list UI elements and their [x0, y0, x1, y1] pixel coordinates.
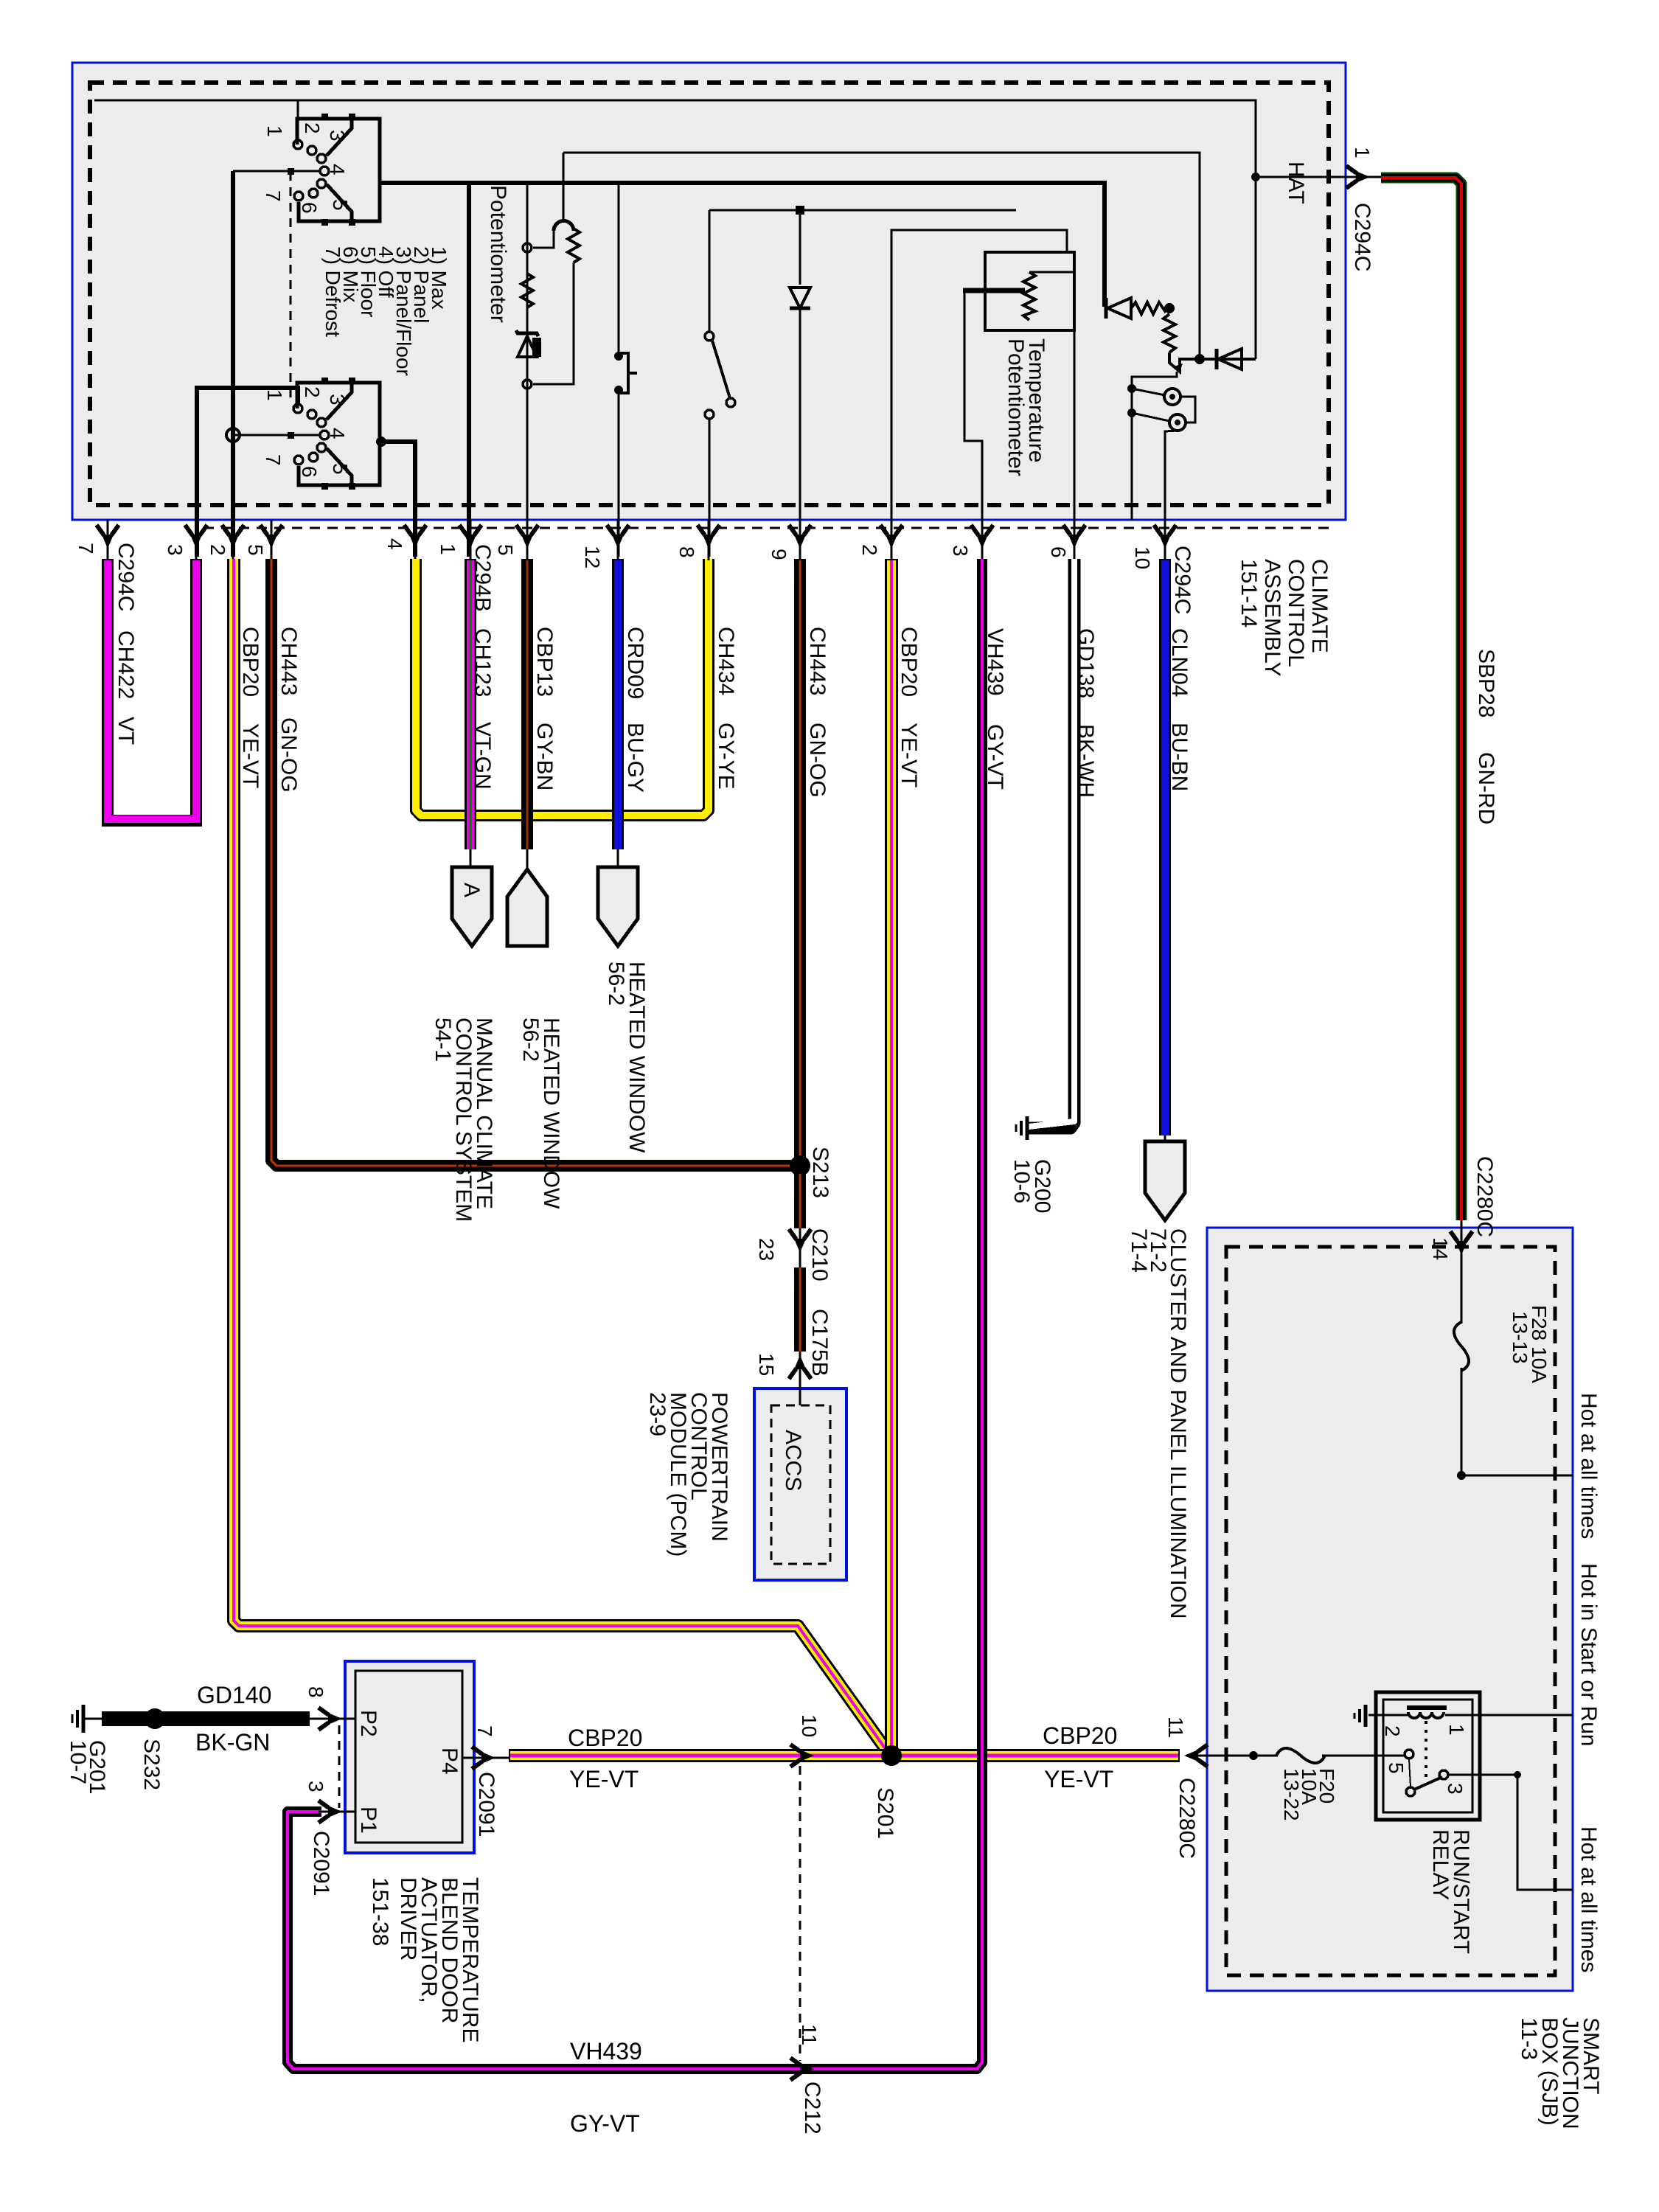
SW1 contact 6: [294, 192, 303, 201]
svg-text:YE-VT: YE-VT: [238, 723, 262, 788]
wire CH422 U (violet core): [108, 560, 196, 819]
relay pin 5 contact: [1405, 1750, 1413, 1759]
SW2 frame junction squares: [321, 378, 328, 384]
svg-text:HAT: HAT: [1284, 161, 1308, 204]
arrow 11 C212: [790, 2058, 814, 2080]
zener diode in blower chain: [518, 336, 537, 357]
lamp 2: [1169, 414, 1186, 431]
svg-text:1: 1: [1445, 1724, 1468, 1736]
svg-text:YE-VT: YE-VT: [569, 1766, 639, 1792]
svg-text:C294C: C294C: [114, 543, 138, 611]
ACCS dashed box: [771, 1405, 830, 1564]
lead to cluster connector: [1164, 1135, 1166, 1143]
pin 2b lead: [891, 520, 893, 560]
svg-text:CONTROL: CONTROL: [1284, 559, 1308, 667]
svg-text:5: 5: [1385, 1762, 1408, 1774]
SW2 contact 5a: [317, 443, 326, 452]
svg-text:S201: S201: [873, 1787, 897, 1839]
relay blade: [1414, 1777, 1442, 1790]
relay movable contact: [1406, 1787, 1415, 1796]
mode switch SW2 frame: [297, 383, 380, 485]
svg-text:YE-VT: YE-VT: [1044, 1766, 1113, 1792]
wire: interior top line to HAT node: [94, 100, 1256, 359]
node: junction on y285 line: [796, 206, 804, 215]
relay pin 1 wire to hot in start or run: [1445, 1714, 1573, 1717]
wire CH443 below S213 (outline): [794, 1174, 806, 1228]
node S201: [881, 1745, 902, 1766]
lamp loop rectangle: [1180, 397, 1195, 422]
SW2 contact 5b: [309, 453, 318, 462]
lead to heated window connector 1: [526, 849, 529, 872]
svg-text:23: 23: [755, 1238, 778, 1261]
pushbutton upper contact: [614, 352, 623, 361]
wire CBP20 left (outline): [234, 559, 889, 1754]
pin 5 lead: [271, 520, 273, 560]
svg-text:1: 1: [437, 543, 459, 555]
svg-text:CBP20: CBP20: [1043, 1722, 1117, 1749]
wire CH434 U (outline): [416, 559, 709, 815]
svg-text:11: 11: [1164, 1717, 1187, 1738]
svg-text:Hot at all times: Hot at all times: [1576, 1393, 1601, 1539]
wire SBP28 (green edge): [1381, 178, 1461, 1220]
wire SBP28 (outline): [1381, 178, 1461, 1220]
SPST lower contact: [705, 410, 714, 419]
svg-text:2: 2: [858, 544, 881, 556]
transistor symbol: [1169, 352, 1256, 372]
svg-text:2: 2: [301, 122, 324, 134]
svg-text:5: 5: [244, 544, 267, 556]
wire: SPST switch line upper: [709, 210, 711, 331]
svg-text:C2091: C2091: [474, 1772, 498, 1837]
wire: pushbutton line upper: [618, 185, 620, 353]
svg-text:5: 5: [329, 463, 352, 475]
SPST blade end contact: [726, 398, 735, 407]
svg-text:5: 5: [329, 199, 352, 211]
wire VH439 crossing overlay: [977, 1733, 987, 1781]
diode cathode bar: [790, 307, 810, 310]
lamp 2 link: [1132, 413, 1169, 421]
pin 8 arrow: [698, 525, 720, 549]
svg-text:P2: P2: [356, 1710, 380, 1737]
wire CLN04 (outline): [1159, 559, 1171, 1135]
wire hot at all times feed: [1461, 1475, 1573, 1477]
svg-text:7: 7: [473, 1725, 496, 1737]
svg-text:4: 4: [383, 538, 406, 550]
wire relay pin3 to hot at all times: [1449, 1775, 1573, 1890]
wire: blower resistor chain vertical: [526, 185, 529, 557]
ground G201 bar3: [72, 1714, 74, 1723]
dashed link P2-P1: [338, 1725, 341, 1808]
pushbutton stem: [628, 372, 637, 375]
svg-text:BU-GY: BU-GY: [623, 723, 647, 793]
pin 8 lead: [708, 520, 710, 560]
wire CBP20 S201 to SJB (violet stripe): [891, 1754, 1178, 1758]
svg-text:1: 1: [263, 389, 286, 401]
svg-text:9: 9: [768, 549, 790, 560]
node: HAT junction dot: [1251, 173, 1260, 181]
svg-text:CLIMATE: CLIMATE: [1307, 559, 1332, 653]
SW2 contact 3: [307, 410, 316, 419]
arrow 14 C2280C: [1450, 1231, 1472, 1255]
pushbutton actuator bar: [619, 353, 628, 393]
blower motor hook arc: [554, 221, 574, 232]
run/start relay outer box: [1376, 1692, 1480, 1820]
wire CBP20 P4 to S201 (yellow): [510, 1751, 891, 1760]
lamp 1 link: [1132, 389, 1165, 395]
svg-text:C294C: C294C: [1350, 203, 1374, 271]
wire: bus drop to pin 1: [467, 183, 471, 557]
arrow 8 P2: [319, 1708, 342, 1730]
lead at C210: [799, 1228, 801, 1267]
arrow 3 P1: [319, 1801, 342, 1823]
svg-text:8: 8: [675, 546, 698, 558]
wire: bypass branch lower: [533, 262, 574, 384]
svg-text:CH443: CH443: [805, 627, 829, 695]
diode 1 triangle: [1107, 298, 1131, 319]
wire CRD09 (blue): [614, 560, 622, 849]
node S232: [145, 1708, 165, 1729]
pin 12 lead: [617, 520, 619, 560]
wire CBP20 left (violet stripe): [234, 559, 889, 1754]
lead to heated window connector 2: [617, 849, 619, 869]
SW2 contact 6: [294, 456, 303, 465]
dashed link 10-11: [799, 1766, 801, 2061]
lead to connector A: [470, 849, 472, 869]
wire CH443 right (outline): [794, 559, 806, 1161]
svg-text:Potentiometer: Potentiometer: [1004, 338, 1028, 476]
wire: hook to top line riser: [563, 153, 565, 221]
svg-text:CRD09: CRD09: [623, 627, 647, 699]
svg-text:7) Defrost: 7) Defrost: [321, 246, 344, 337]
arrow 11 C2280C: [1184, 1745, 1208, 1767]
pin 5 arrow: [260, 525, 282, 549]
lamp 1: [1164, 389, 1180, 405]
svg-text:CH434: CH434: [714, 627, 738, 695]
svg-text:3: 3: [164, 544, 187, 556]
pin 1 arrow: [459, 525, 481, 549]
SW1-SW2 mechanical dashed link: [290, 172, 292, 402]
SW1 contact 5a: [317, 179, 326, 188]
wire CBP20 riser (yellow): [887, 560, 896, 1752]
svg-text:4: 4: [326, 428, 349, 439]
resistor after diode 1: [1131, 302, 1168, 314]
wire: blower bypass branch upper: [533, 231, 554, 248]
connector A pentagon: [452, 867, 492, 946]
svg-text:151-38: 151-38: [368, 1877, 392, 1946]
smart junction box (SJB): [1207, 1228, 1573, 1991]
svg-text:C210: C210: [807, 1228, 832, 1281]
wire GD140 (black): [102, 1711, 310, 1726]
svg-text:S232: S232: [139, 1739, 164, 1790]
svg-text:P1: P1: [356, 1806, 380, 1834]
svg-text:GN-OG: GN-OG: [805, 723, 829, 798]
svg-text:Potentiometer: Potentiometer: [486, 185, 510, 323]
diode 2 cathode bar: [1215, 349, 1219, 369]
svg-text:13-13: 13-13: [1509, 1311, 1531, 1364]
SW1 contact 3: [307, 146, 316, 155]
svg-text:GN-RD: GN-RD: [1474, 752, 1498, 824]
svg-text:71-4: 71-4: [1127, 1228, 1151, 1273]
svg-text:CH443: CH443: [276, 627, 301, 695]
wire CRD09 (outline): [612, 559, 624, 849]
wire CBP20 P4 to S201 (violet stripe): [510, 1754, 891, 1758]
svg-text:CLUSTER AND PANEL ILLUMINATION: CLUSTER AND PANEL ILLUMINATION: [1166, 1228, 1190, 1619]
wire: pin3 link to SW2: [197, 388, 298, 557]
svg-text:GY-YE: GY-YE: [714, 723, 738, 790]
svg-text:151-14: 151-14: [1237, 559, 1261, 627]
arrow 7 P4: [472, 1747, 495, 1769]
HAT pin arrow: [1346, 166, 1370, 188]
SW2 input line: [233, 434, 319, 437]
wire: main thick supply bus inside climate box: [380, 183, 1105, 307]
blower chain contact lower: [523, 380, 532, 389]
wire VH439 (violet core): [288, 559, 982, 2069]
pin 7 lead: [107, 520, 109, 560]
node S201 (top copy): [881, 1745, 902, 1766]
svg-text:C2091: C2091: [309, 1831, 333, 1896]
relay pin 2 wire to ground: [1368, 1714, 1408, 1717]
pin 6 arrow: [1063, 525, 1085, 549]
resistor vertical to transistor: [1164, 314, 1175, 352]
SW2 input junction circle: [226, 428, 240, 442]
wire VH439 (outline): [288, 559, 982, 2069]
svg-text:7: 7: [262, 190, 285, 202]
relay coil bar: [1407, 1705, 1447, 1710]
temp pot resistor top link: [1029, 271, 1073, 274]
wire CBP20 left (yellow): [234, 559, 889, 1754]
svg-text:10-7: 10-7: [66, 1740, 90, 1784]
SW2 wiper contact: [317, 418, 326, 427]
relay coil bumps: [1408, 1712, 1444, 1718]
node F20 feed dot: [1249, 1751, 1258, 1760]
SJB inner dashed border: [1226, 1247, 1555, 1975]
svg-text:6: 6: [298, 202, 321, 214]
svg-text:1: 1: [1351, 147, 1374, 159]
lamp 2 center: [1175, 420, 1180, 425]
svg-text:7: 7: [74, 543, 97, 554]
wire CH443 right (orange stripe): [799, 560, 801, 1161]
wire F20 to relay pin 5: [1322, 1755, 1404, 1757]
SW2 blade lower: [327, 448, 352, 485]
wire: CBP20 interior line to temp pot: [891, 230, 1067, 557]
svg-text:CH422: CH422: [114, 630, 138, 699]
wire: SW2 wiper riser to pin2 (thick): [231, 171, 235, 557]
wire: HAT branch line: [1256, 176, 1330, 178]
wire CH443 below S213 (orange stripe): [799, 1174, 801, 1228]
heated window connector 1 pentagon: [507, 869, 547, 946]
svg-text:CBP13: CBP13: [532, 627, 557, 697]
svg-text:56-2: 56-2: [604, 961, 628, 1006]
wire CH123 (green stripe): [470, 560, 472, 849]
svg-text:8: 8: [305, 1686, 327, 1698]
svg-text:CBP20: CBP20: [238, 627, 262, 697]
svg-text:54-1: 54-1: [431, 1018, 455, 1062]
wire CH422 U (outline): [108, 559, 196, 821]
SW1 contact 4: [320, 167, 329, 175]
svg-text:10: 10: [798, 1714, 821, 1737]
svg-text:GY-VT: GY-VT: [570, 2110, 640, 2137]
svg-text:YE-VT: YE-VT: [897, 723, 921, 787]
pin 3 arrow: [185, 525, 207, 549]
pin 5b lead: [526, 520, 529, 560]
svg-text:ACCS: ACCS: [781, 1430, 805, 1491]
wire CBP20 P4 to S201 (outline): [509, 1749, 891, 1762]
node: lamp stack dot 1: [1127, 384, 1136, 393]
temperature potentiometer box: [985, 252, 1074, 330]
svg-text:Hot at all times: Hot at all times: [1576, 1826, 1601, 1972]
ground G200 bar2: [1020, 1121, 1023, 1135]
pin 10 lead: [1164, 520, 1166, 560]
node: resistor junction dot: [1164, 303, 1175, 313]
svg-text:GY-BN: GY-BN: [532, 723, 557, 790]
pin 12 arrow: [607, 525, 629, 549]
wire CH443 left (orange stripe): [271, 559, 795, 1166]
svg-text:12: 12: [581, 546, 604, 568]
temp pot wiper (thick): [963, 288, 1025, 293]
coil in bypass branch: [568, 229, 580, 262]
actuator inner border: [355, 1671, 462, 1843]
wire: pushbutton line lower to pin 12: [618, 393, 620, 557]
SW1 input line from CBP20 riser: [233, 170, 319, 173]
arrow 15 C175B: [789, 1355, 811, 1379]
zener cathode bar: [516, 330, 538, 336]
svg-text:C175B: C175B: [807, 1309, 832, 1377]
wire GD138 (outline): [1029, 559, 1074, 1128]
lead from P4: [462, 1757, 510, 1759]
svg-text:6: 6: [1047, 546, 1070, 558]
svg-text:2: 2: [301, 386, 324, 398]
heated window connector 2 pentagon: [598, 867, 638, 946]
svg-text:3: 3: [305, 1781, 327, 1792]
temperature blend door actuator box: [345, 1661, 474, 1853]
mode switch SW1 frame: [297, 119, 380, 221]
wire: CLN04 interior riser: [1165, 431, 1178, 557]
SW2 blade upper: [327, 383, 352, 420]
pin 3 lead: [195, 520, 198, 560]
svg-text:11: 11: [798, 2024, 821, 2045]
SW2 contact 2: [293, 404, 302, 413]
arrow 23 C210: [789, 1229, 811, 1253]
svg-text:GD140: GD140: [197, 1682, 271, 1708]
SW1 frame junction squares: [321, 114, 328, 120]
pin 3b lead: [981, 520, 984, 560]
svg-text:13-22: 13-22: [1280, 1768, 1303, 1821]
wire: SW2 output to pin 4: [380, 442, 415, 557]
pin 6 lead: [1074, 520, 1076, 560]
wire: temp pot bottom to GD138 pin 6: [1074, 329, 1076, 557]
svg-text:SBP28: SBP28: [1474, 649, 1498, 717]
node S201 (top copy): [881, 1745, 902, 1766]
ground G201 lead: [83, 1718, 103, 1720]
svg-text:S213: S213: [808, 1147, 832, 1198]
ground G201 bar2: [76, 1710, 79, 1728]
svg-text:11-3: 11-3: [1517, 2017, 1541, 2060]
node: lamp stack dot 2: [1127, 408, 1136, 417]
node: transistor output dot: [1194, 354, 1205, 364]
wire CH443 to PCM (orange stripe): [799, 1267, 801, 1352]
svg-text:23-9: 23-9: [645, 1392, 669, 1436]
wire CH123 (outline): [465, 559, 476, 849]
lead at C175B: [799, 1352, 801, 1405]
svg-text:3: 3: [1444, 1783, 1467, 1795]
climate assembly inner dashed border: [90, 83, 1329, 505]
run/start relay inner box: [1383, 1700, 1472, 1812]
svg-text:6: 6: [298, 466, 321, 478]
SW2 contact 4: [320, 431, 329, 439]
svg-text:CBP20: CBP20: [897, 627, 921, 697]
wire SBP28 (red core): [1381, 178, 1461, 1220]
svg-text:7: 7: [262, 454, 285, 466]
SPST blade: [712, 341, 730, 398]
svg-text:VH439: VH439: [570, 2038, 642, 2065]
svg-text:56-2: 56-2: [518, 1018, 543, 1062]
wire CH434 U (yellow): [416, 559, 709, 815]
svg-text:C2280C: C2280C: [1472, 1156, 1497, 1237]
node hot feed junction: [1457, 1471, 1466, 1480]
pin 4 lead: [414, 520, 417, 560]
svg-text:4: 4: [326, 164, 349, 175]
wire CBP20 S201 to SJB (outline): [891, 1749, 1180, 1762]
pin 9 lead: [799, 520, 801, 560]
diode 2 triangle: [1218, 349, 1242, 369]
svg-text:2: 2: [1381, 1725, 1404, 1737]
wire: interior line y207: [563, 153, 1200, 359]
pin 2b arrow: [880, 525, 902, 549]
wire CLN04 (blue): [1161, 560, 1169, 1135]
SW1 blade upper: [327, 119, 352, 156]
pin 2 lead: [232, 520, 234, 560]
fuse F28: [1454, 1322, 1469, 1371]
wire CBP20 S201 to SJB (yellow): [891, 1751, 1178, 1760]
svg-text:2: 2: [206, 544, 229, 556]
wire CH123 (violet): [467, 560, 474, 849]
pin 1 lead: [470, 520, 472, 560]
pushbutton lower contact: [614, 386, 623, 394]
relay ground bar2: [1358, 1709, 1361, 1722]
node S213: [790, 1155, 810, 1176]
arrow 10: [790, 1745, 814, 1767]
transistor emitter tick: [1174, 364, 1183, 372]
pin 7 arrow: [97, 525, 119, 549]
HAT pin lead: [1330, 176, 1381, 178]
node pin3 wire corner dot: [1514, 1771, 1521, 1778]
svg-text:3: 3: [949, 545, 972, 557]
svg-text:GN-OG: GN-OG: [276, 717, 301, 793]
diode on pin 9 line: [790, 288, 810, 308]
svg-text:5: 5: [494, 544, 517, 556]
lead into actuator P1: [319, 1811, 355, 1813]
svg-text:CBP20: CBP20: [568, 1725, 642, 1751]
wire CH443 to PCM (outline): [794, 1267, 806, 1352]
wire: sub-branch line y285: [709, 209, 1016, 212]
pin 4 arrow: [404, 525, 426, 549]
wire: SPST line lower to pin 8: [709, 419, 711, 557]
lead from C2280C into SJB: [1461, 1220, 1463, 1324]
diode 1 cathode bar on bus drop: [1105, 298, 1108, 319]
blower chain contact upper: [523, 243, 532, 252]
lamp 1 center: [1169, 394, 1175, 400]
wire VH439 crossing overlay: [977, 1733, 987, 1781]
pin 3b arrow: [971, 525, 993, 549]
svg-text:C294C: C294C: [1170, 546, 1194, 614]
relay pivot link: [1409, 1759, 1411, 1787]
SW1 contact stub from top line: [297, 100, 299, 140]
zener side mark: [532, 338, 541, 357]
relay pin 3 contact: [1439, 1770, 1448, 1779]
svg-text:3: 3: [326, 130, 349, 142]
svg-text:RELAY: RELAY: [1428, 1829, 1453, 1900]
fuse F20: [1276, 1748, 1325, 1763]
